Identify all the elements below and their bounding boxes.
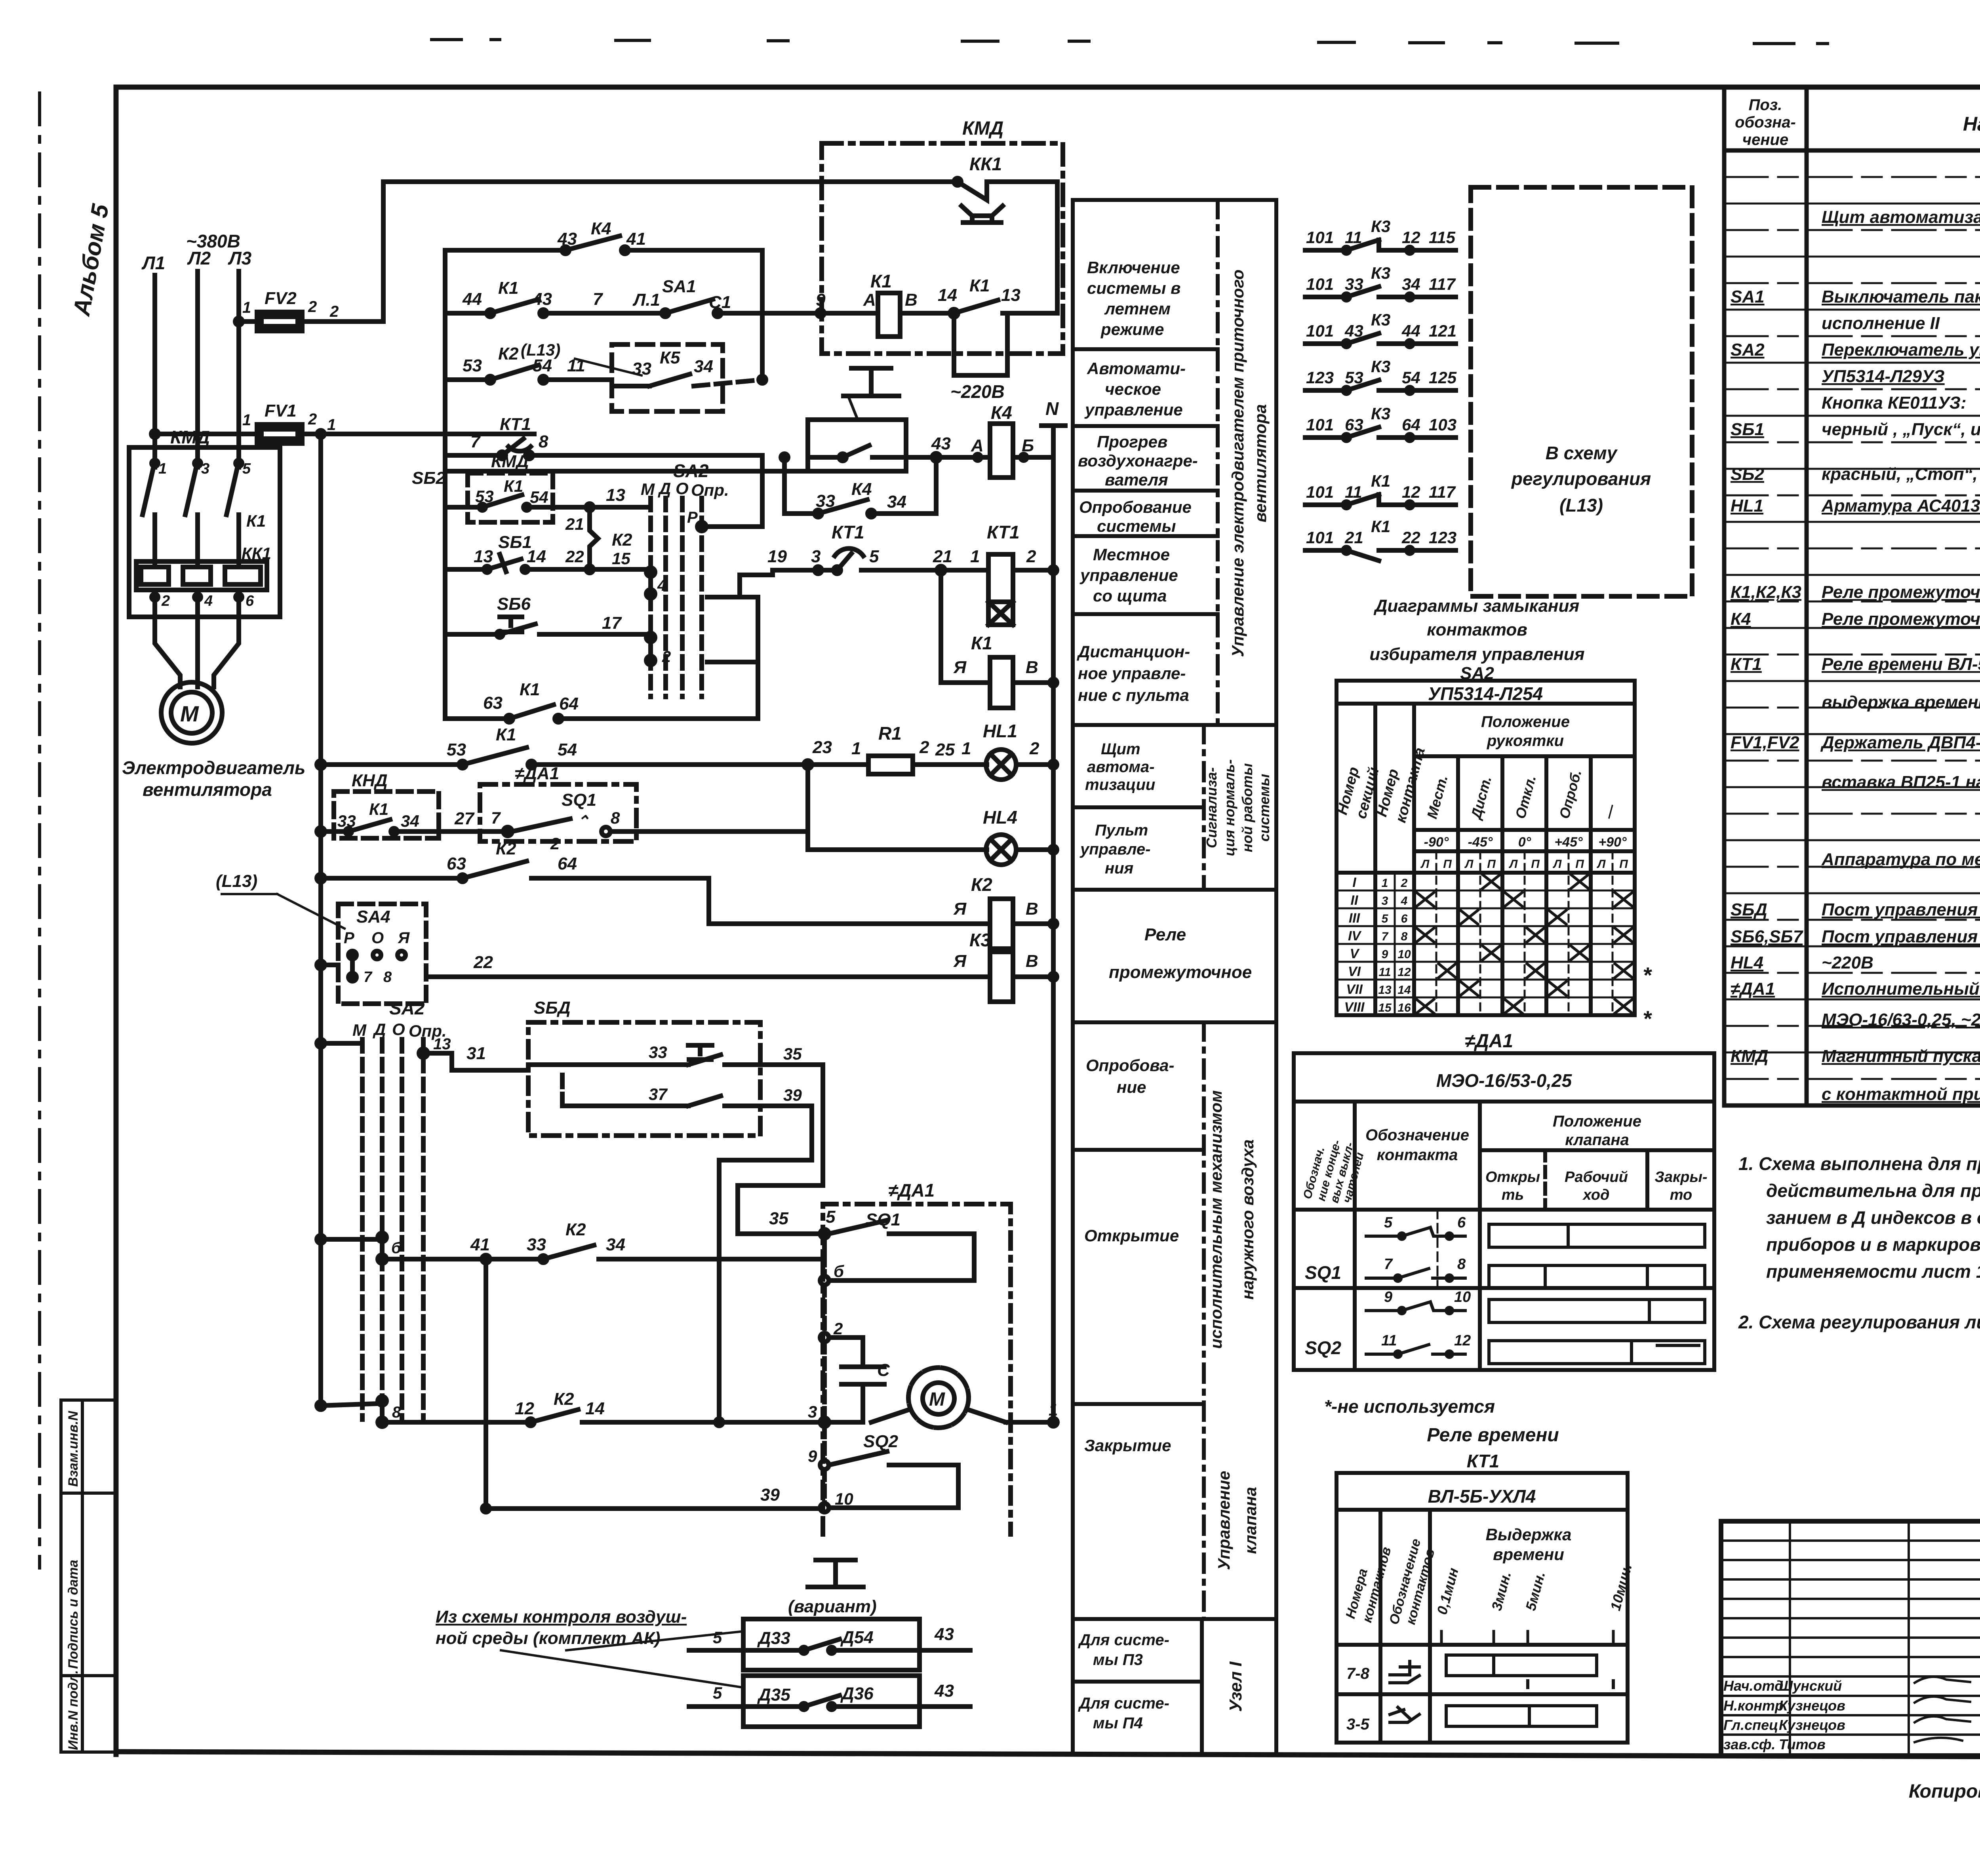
svg-text:летнем: летнем [1104, 299, 1171, 318]
relay K5 dash box with contact 33-34 [612, 344, 766, 411]
svg-text:Электродвигатель: Электродвигатель [122, 757, 305, 778]
svg-text:Л: Л [1553, 858, 1562, 871]
svg-text:Кузнецов: Кузнецов [1779, 1717, 1845, 1733]
svg-text:Сигнализа-: Сигнализа- [1203, 767, 1220, 848]
ladder mid rail [760, 250, 765, 380]
svg-text:3мин.: 3мин. [1488, 1570, 1514, 1612]
wire FV2 to top bus [383, 182, 958, 322]
svg-text:53: 53 [447, 740, 466, 759]
svg-text:5: 5 [713, 1628, 722, 1647]
contact K2 63-64 row [317, 839, 709, 882]
svg-text:115: 115 [1429, 228, 1456, 247]
svg-text:Я: Я [953, 899, 967, 919]
svg-text:К2: К2 [496, 839, 516, 858]
svg-text:15: 15 [612, 549, 630, 568]
svg-text:регулирования: регулирования [1511, 468, 1651, 489]
svg-text:контактов: контактов [1427, 620, 1527, 639]
function column grid [1073, 200, 1276, 1754]
svg-text:3: 3 [811, 547, 821, 566]
svg-text:наружного воздуха: наружного воздуха [1238, 1140, 1257, 1300]
svg-text:ние: ние [1117, 1078, 1146, 1096]
svg-text:5: 5 [713, 1684, 722, 1702]
svg-text:исполнение II: исполнение II [1822, 314, 1940, 333]
svg-text:МЭО-16/63-0,25, ~220В: МЭО-16/63-0,25, ~220В [1822, 1010, 1980, 1029]
svg-text:Р: Р [344, 929, 354, 947]
svg-text:1. Схема выполнена для прит: 1. Схема выполнена для приточной системы… [1738, 1153, 1980, 1174]
svg-text:воздухонагре-: воздухонагре- [1078, 451, 1198, 470]
svg-text:К3: К3 [1371, 310, 1390, 329]
svg-text:Опр.: Опр. [691, 481, 729, 499]
svg-text:рукоятки: рукоятки [1487, 732, 1564, 750]
svg-text:Взам.инв.N: Взам.инв.N [66, 1410, 81, 1487]
label: intermediate relay [1109, 925, 1252, 982]
timer relay KT1 row 19-3-5-21-1-2 [740, 522, 988, 597]
svg-text:101: 101 [1306, 483, 1334, 501]
svg-text:Прогрев: Прогрев [1097, 432, 1167, 451]
svg-text:SA1: SA1 [662, 277, 696, 296]
svg-text:SQ1: SQ1 [562, 790, 596, 810]
svg-text:103: 103 [1429, 415, 1456, 434]
svg-text:К1: К1 [498, 278, 519, 298]
svg-text:53: 53 [463, 356, 482, 375]
svg-text:22: 22 [473, 953, 493, 972]
svg-text:К3: К3 [1371, 264, 1390, 282]
svg-text:красный, „Стоп“, исполнение 5: красный, „Стоп“, исполнение 5 [1822, 464, 1980, 484]
svg-text:К4: К4 [851, 479, 872, 499]
svg-text:Подпись и дата: Подпись и дата [66, 1560, 81, 1669]
svg-text:8: 8 [539, 432, 548, 451]
node: to regulation circuit box [1471, 187, 1692, 596]
svg-text:6: 6 [1401, 912, 1408, 925]
svg-text:В: В [1026, 951, 1038, 971]
svg-text:43: 43 [934, 1625, 954, 1644]
valve drive DA1 main dash box [820, 1180, 1011, 1534]
svg-text:К1: К1 [1371, 472, 1390, 490]
fuse FV1 [151, 401, 534, 443]
svg-text:Гл.спец: Гл.спец [1723, 1717, 1778, 1733]
svg-text:Шунский: Шунский [1779, 1678, 1842, 1694]
svg-text:Л.1: Л.1 [632, 290, 660, 310]
contact K3 53-54 row [1305, 357, 1457, 394]
svg-text:Альбом 5: Альбом 5 [68, 202, 114, 318]
notes text [1738, 1153, 1980, 1332]
svg-text:13: 13 [1001, 285, 1020, 305]
svg-text:(L13): (L13) [521, 341, 560, 359]
svg-text:промежуточное: промежуточное [1109, 963, 1252, 982]
svg-text:16: 16 [1397, 1001, 1411, 1014]
svg-text:К3: К3 [969, 930, 991, 950]
svg-text:21: 21 [933, 547, 952, 566]
svg-text:Дист.: Дист. [1467, 774, 1495, 822]
svg-text:Д35: Д35 [757, 1685, 790, 1705]
svg-text:63: 63 [447, 854, 466, 873]
svg-text:2: 2 [329, 303, 339, 320]
svg-text:Н.контр: Н.контр [1723, 1697, 1784, 1714]
svg-text:К2: К2 [498, 344, 519, 363]
svg-text:35: 35 [769, 1209, 788, 1228]
svg-text:приборов и в маркировке це: приборов и в маркировке цепей согласно т… [1766, 1234, 1980, 1255]
svg-text:54: 54 [558, 740, 577, 759]
svg-text:1: 1 [327, 416, 336, 434]
svg-text:Опробова-: Опробова- [1086, 1056, 1174, 1075]
title block [1721, 1521, 1980, 1756]
motor M fan [161, 682, 222, 743]
svg-text:М: М [641, 480, 655, 498]
svg-text:К1: К1 [369, 800, 388, 818]
svg-text:Реле промежуточное ПЭ-37-42УЗ: Реле промежуточное ПЭ-37-42УЗ, ~220В [1822, 582, 1980, 602]
svg-text:Инв.N подл.: Инв.N подл. [66, 1670, 81, 1750]
svg-text:17: 17 [602, 613, 622, 633]
svg-text:22: 22 [565, 547, 584, 566]
svg-text:П: П [1443, 858, 1452, 871]
svg-text:вставка ВП25-1 на 2А: вставка ВП25-1 на 2А [1822, 772, 1980, 792]
svg-text:SA4: SA4 [356, 907, 390, 927]
svg-text:1: 1 [851, 739, 861, 758]
svg-text:VI: VI [1348, 964, 1361, 979]
svg-text:5мин.: 5мин. [1522, 1570, 1548, 1612]
svg-text:FV2: FV2 [265, 289, 297, 308]
remote post SBD dash box [528, 998, 823, 1136]
label: system summer start [1087, 258, 1181, 339]
svg-text:8: 8 [392, 1404, 401, 1421]
contact K2 33-34 opening row [388, 1220, 824, 1263]
svg-text:21: 21 [1344, 528, 1363, 547]
label: for system P3 [1078, 1631, 1169, 1669]
label: system testing [1079, 498, 1192, 535]
svg-text:5: 5 [826, 1207, 836, 1227]
svg-text:применяемости лист 13.: применяемости лист 13. [1766, 1261, 1980, 1282]
svg-text:35: 35 [783, 1045, 802, 1063]
svg-text:39: 39 [760, 1485, 780, 1505]
svg-text:К1: К1 [971, 633, 992, 653]
svg-text:34: 34 [694, 357, 713, 376]
contact KT1 7-8 timed row [445, 415, 762, 459]
label: local control [1079, 545, 1178, 605]
svg-text:III: III [1349, 911, 1361, 926]
svg-text:SБ6: SБ6 [497, 594, 531, 614]
svg-text:3-5: 3-5 [1346, 1716, 1370, 1733]
svg-text:*: * [1643, 963, 1652, 987]
svg-text:6: 6 [1457, 1214, 1466, 1231]
svg-text:МЭО-16/53-0,25: МЭО-16/53-0,25 [1436, 1070, 1573, 1091]
svg-text:Включение: Включение [1087, 258, 1180, 277]
svg-text:Реле времени: Реле времени [1427, 1425, 1559, 1446]
svg-text:М: М [180, 701, 199, 726]
svg-text:Пост управления ПКУ15-21.331: Пост управления ПКУ15-21.331-54У2 [1822, 927, 1980, 946]
svg-text:101: 101 [1306, 528, 1334, 547]
svg-text:Нач.отд.: Нач.отд. [1723, 1678, 1787, 1694]
svg-text:(L13): (L13) [216, 871, 257, 891]
svg-text:действительна для приточной: действительна для приточной системы П.4 … [1766, 1180, 1980, 1201]
svg-text:В: В [1026, 658, 1038, 677]
svg-text:Положение: Положение [1553, 1113, 1641, 1130]
svg-text:-90°: -90° [1424, 835, 1449, 850]
svg-text:2: 2 [662, 648, 671, 666]
jumper 21-22 K2 15 [565, 507, 632, 569]
svg-text:режиме: режиме [1100, 320, 1164, 339]
contact K3 63-64 row [1305, 404, 1456, 441]
svg-text:Реле промежуточное ПЭ-37-42УЗ: Реле промежуточное ПЭ-37-42УЗ, ~220В [1822, 609, 1980, 629]
svg-text:5: 5 [1384, 1214, 1393, 1231]
svg-text:Выдержка: Выдержка [1486, 1525, 1572, 1544]
contact K3 11-12 row [1305, 217, 1456, 253]
svg-text:⌃: ⌃ [576, 813, 590, 830]
svg-text:вентилятора: вентилятора [143, 779, 272, 800]
svg-text:8: 8 [383, 969, 392, 986]
svg-text:FV1: FV1 [265, 401, 297, 420]
contact K3 43-44 row [1305, 310, 1456, 347]
svg-text:К1,К2,К3: К1,К2,К3 [1731, 582, 1801, 602]
valve motor M [808, 1368, 1058, 1428]
limit switch SQ2 contact 9-10 [808, 1427, 958, 1512]
svg-text:SA2: SA2 [673, 460, 709, 481]
note: from air control circuit [436, 1607, 743, 1688]
svg-text:КМД: КМД [170, 427, 210, 447]
label: remote control [1077, 642, 1190, 704]
svg-text:7: 7 [1384, 1256, 1393, 1273]
svg-text:клапана: клапана [1565, 1131, 1629, 1149]
svg-text:К3: К3 [1371, 217, 1390, 236]
svg-text:1: 1 [1382, 877, 1388, 890]
svg-text:121: 121 [1429, 322, 1456, 340]
svg-text:Опроб.: Опроб. [1556, 768, 1584, 820]
svg-text:SA2: SA2 [1731, 340, 1765, 360]
svg-text:КМД: КМД [1731, 1046, 1768, 1066]
contact K1 21-22 row [1305, 517, 1456, 561]
svg-text:зав.сф.: зав.сф. [1723, 1736, 1776, 1752]
svg-text:101: 101 [1306, 415, 1334, 434]
svg-text:Л: Л [1464, 858, 1474, 871]
svg-text:SQ2: SQ2 [863, 1432, 899, 1451]
svg-text:2: 2 [1026, 547, 1036, 566]
svg-text:Аппаратура по месту: Аппаратура по месту [1821, 850, 1980, 869]
svg-text:34: 34 [887, 492, 906, 512]
svg-text:Автомати-: Автомати- [1087, 359, 1186, 378]
svg-text:≠ДА1: ≠ДА1 [888, 1180, 935, 1201]
svg-text:ной среды (комплект АК): ной среды (комплект АК) [436, 1629, 661, 1648]
svg-text:Кузнецов: Кузнецов [1779, 1697, 1845, 1714]
svg-text:SQ1: SQ1 [1305, 1262, 1341, 1283]
svg-text:Исполнительный механизм: Исполнительный механизм [1822, 979, 1980, 999]
top trim dashes [432, 40, 1980, 45]
svg-text:3: 3 [808, 1402, 817, 1421]
svg-text:117: 117 [1429, 483, 1456, 501]
svg-text:Откры: Откры [1485, 1169, 1540, 1185]
svg-text:2: 2 [1029, 739, 1039, 758]
svg-text:Дистанцион-: Дистанцион- [1077, 642, 1190, 661]
selector SA2 diagram table UP5314 [1336, 681, 1635, 1015]
svg-text:В схему: В схему [1546, 443, 1618, 463]
svg-text:К1: К1 [496, 725, 516, 744]
svg-text:2: 2 [550, 834, 560, 853]
svg-text:4: 4 [657, 577, 666, 594]
capacitor C [841, 1360, 890, 1410]
svg-text:HL4: HL4 [1731, 953, 1763, 972]
svg-text:мы П3: мы П3 [1093, 1651, 1143, 1669]
svg-text:занием в Д индексов в обо: занием в Д индексов в обозначении аппара… [1766, 1207, 1980, 1228]
svg-text:К2: К2 [971, 874, 992, 895]
svg-text:Диаграммы замыкания: Диаграммы замыкания [1373, 596, 1580, 616]
svg-text:-45°: -45° [1468, 835, 1493, 850]
svg-text:14: 14 [1397, 984, 1411, 997]
svg-text:13: 13 [433, 1035, 451, 1053]
svg-text:М: М [929, 1389, 945, 1410]
svg-text:Мест.: Мест. [1424, 773, 1451, 820]
svg-text:К2: К2 [565, 1220, 586, 1239]
svg-text:33: 33 [632, 359, 651, 379]
svg-text:системы: системы [1097, 517, 1176, 535]
svg-text:со щита: со щита [1093, 586, 1167, 605]
svg-text:34: 34 [1402, 275, 1420, 293]
svg-text:Переключатель универсальный: Переключатель универсальный [1822, 340, 1980, 360]
control bus from FV1 [318, 434, 323, 1406]
coil K3 row [953, 930, 1057, 1002]
svg-text:ной работы: ной работы [1239, 763, 1255, 852]
svg-text:R1: R1 [878, 723, 902, 744]
svg-text:Для систе-: Для систе- [1078, 1695, 1169, 1712]
svg-text:101: 101 [1306, 322, 1334, 340]
svg-text:41: 41 [626, 229, 646, 249]
svg-text:КНД: КНД [352, 771, 388, 790]
svg-text:43: 43 [931, 434, 951, 453]
svg-text:К5: К5 [660, 348, 680, 367]
svg-text:К2: К2 [612, 530, 632, 550]
svg-text:О: О [371, 929, 384, 947]
svg-text:14: 14 [938, 285, 957, 305]
svg-text:К1: К1 [520, 680, 540, 699]
svg-text:+45°: +45° [1554, 835, 1583, 850]
svg-text:К1: К1 [1371, 517, 1390, 536]
svg-text:Д: Д [373, 1020, 386, 1039]
svg-text:≠ДА1: ≠ДА1 [515, 764, 559, 783]
svg-text:44: 44 [1401, 322, 1420, 340]
svg-text:Титов: Титов [1779, 1736, 1826, 1752]
contact K2 53-54 + relay K5 dash box row [445, 344, 612, 383]
svg-text:10мин.: 10мин. [1607, 1562, 1635, 1612]
selector SA4 dash box [317, 904, 426, 1004]
wire 22 to coil K3 [426, 953, 990, 977]
svg-text:системы в: системы в [1087, 279, 1181, 297]
svg-text:SБД: SБД [1731, 900, 1767, 919]
svg-text:64: 64 [558, 854, 577, 873]
svg-text:123: 123 [1429, 528, 1456, 547]
svg-text:ния: ния [1105, 860, 1133, 877]
svg-text:времени: времени [1493, 1545, 1564, 1564]
svg-text:Обозначение: Обозначение [1365, 1126, 1469, 1144]
svg-text:КТ1: КТ1 [1467, 1451, 1500, 1471]
svg-text:Пост управления ПКЕ222-2У2,: Пост управления ПКЕ222-2У2, 1/2" [1822, 900, 1980, 919]
svg-text:КТ1: КТ1 [500, 415, 531, 434]
contact K4 43-41 [445, 219, 762, 254]
svg-text:13: 13 [1378, 984, 1392, 997]
svg-text:Открытие: Открытие [1084, 1226, 1179, 1245]
label: for system P4 [1078, 1695, 1169, 1732]
svg-text:7: 7 [491, 809, 501, 827]
contact K1 11-12 row [1305, 472, 1456, 508]
label: normal work signalling (rotated) [1203, 759, 1272, 856]
label: heater warm-up [1078, 432, 1198, 489]
svg-text:101: 101 [1306, 275, 1334, 293]
specification table [1724, 88, 1980, 1105]
svg-text:2: 2 [833, 1319, 843, 1338]
contact K3 33-34 row [1305, 264, 1456, 300]
svg-text:8: 8 [1401, 930, 1408, 943]
svg-text:Я: Я [398, 929, 410, 947]
svg-text:обозна-: обозна- [1735, 114, 1796, 131]
svg-text:IV: IV [1348, 928, 1362, 944]
svg-text:9: 9 [808, 1447, 817, 1465]
svg-text:2. Схема регулирования лист: 2. Схема регулирования лист 13. [1738, 1312, 1980, 1332]
svg-text:Для систе-: Для систе- [1078, 1631, 1169, 1649]
svg-text:К3: К3 [1371, 357, 1390, 376]
svg-text:П: П [1487, 858, 1496, 871]
svg-text:ция нормаль-: ция нормаль- [1221, 759, 1237, 856]
svg-text:К1: К1 [504, 477, 523, 495]
svg-text:~220В: ~220В [1822, 953, 1873, 972]
svg-text:7-8: 7-8 [1346, 1665, 1370, 1682]
svg-text:выдержка времени 0,1 ... 10: выдержка времени 0,1 ... 10 мин [1822, 693, 1980, 712]
svg-text:ть: ть [1502, 1187, 1524, 1203]
svg-text:П: П [1619, 858, 1628, 871]
label: outside air valve drive control (rotated) [1207, 1090, 1260, 1570]
label: automation board [1085, 740, 1155, 793]
lamp HL4 [983, 807, 1057, 865]
svg-text:Д54: Д54 [840, 1628, 874, 1647]
svg-text:VIII: VIII [1344, 1000, 1365, 1015]
svg-text:ческое: ческое [1105, 380, 1161, 398]
svg-text:44: 44 [462, 289, 482, 309]
wire HL4 row [636, 765, 987, 850]
svg-text:вентилятора: вентилятора [1251, 404, 1270, 522]
svg-text:19: 19 [767, 547, 787, 566]
label: testing [1086, 1056, 1174, 1096]
svg-text:HL4: HL4 [983, 807, 1017, 828]
svg-text:54: 54 [530, 488, 548, 506]
svg-text:Копировал Марченко: Копировал Марченко [1909, 1781, 1980, 1802]
svg-text:4: 4 [204, 593, 213, 609]
svg-text:33: 33 [527, 1235, 546, 1254]
svg-text:II: II [1351, 893, 1359, 908]
svg-text:VII: VII [1346, 982, 1363, 997]
svg-text:2: 2 [1401, 877, 1408, 890]
svg-text:Пульт: Пульт [1095, 822, 1148, 839]
svg-text:К1: К1 [246, 512, 266, 530]
svg-text:SБ2: SБ2 [412, 468, 446, 488]
svg-text:Реле: Реле [1144, 925, 1186, 944]
svg-text:Щит: Щит [1101, 740, 1140, 758]
contact K1 14-13 [938, 276, 1057, 317]
svg-text:7: 7 [1382, 930, 1389, 943]
svg-text:Рабочий: Рабочий [1565, 1169, 1628, 1185]
svg-text:Д33: Д33 [757, 1629, 790, 1648]
svg-text:О: О [676, 479, 689, 498]
svg-text:Л: Л [1509, 858, 1518, 871]
coil K4 row 43-A-B-N [931, 402, 1053, 478]
svg-text:К4: К4 [991, 402, 1012, 423]
svg-text:К2: К2 [554, 1389, 574, 1409]
svg-text:клапана: клапана [1241, 1487, 1260, 1554]
svg-text:12: 12 [1402, 228, 1420, 247]
manual drive symbol I [843, 368, 899, 419]
svg-text:31: 31 [466, 1044, 486, 1063]
svg-text:15: 15 [1378, 1001, 1392, 1014]
svg-text:9: 9 [816, 290, 826, 310]
contact K1 44-43 + switch SA1 + coil K1 row [445, 277, 878, 317]
svg-text:3: 3 [1382, 894, 1388, 908]
svg-text:7: 7 [593, 289, 604, 309]
svg-text:Реле времени ВЛ-5Б-УХЛ4, ~22: Реле времени ВЛ-5Б-УХЛ4, ~220В, [1822, 655, 1980, 674]
svg-text:с контактной приставкой ПКЛ,: с контактной приставкой ПКЛ, ~380В [1822, 1085, 1980, 1104]
